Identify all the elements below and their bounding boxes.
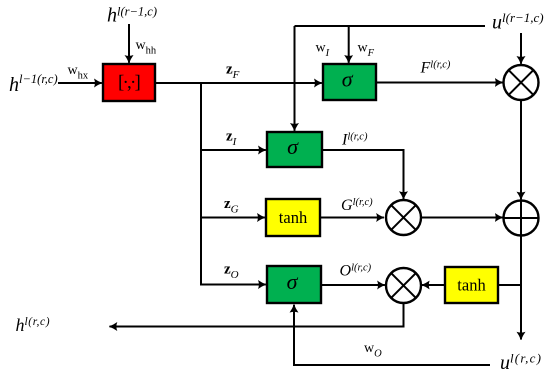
svg-text:wI: wI (316, 41, 330, 60)
svg-text:Fl(r,c): Fl(r,c) (420, 60, 451, 77)
svg-text:tanh: tanh (457, 276, 486, 295)
svg-text:Ol(r,c): Ol(r,c) (340, 263, 372, 280)
svg-text:wO: wO (364, 341, 382, 360)
svg-text:zO: zO (224, 262, 239, 282)
svg-text:zG: zG (224, 196, 239, 216)
svg-text:zI: zI (226, 129, 238, 149)
svg-text:Gl(r,c): Gl(r,c) (341, 197, 373, 214)
svg-text:Il(r,c): Il(r,c) (341, 132, 368, 149)
svg-text:σ: σ (287, 269, 299, 294)
svg-text:zF: zF (226, 62, 240, 82)
svg-text:whx: whx (68, 63, 89, 82)
svg-text:whh: whh (136, 38, 157, 57)
svg-text:hl(r,c): hl(r,c) (16, 315, 51, 335)
svg-text:ul(r−1,c): ul(r−1,c) (492, 10, 544, 34)
svg-text:ul(r,c): ul(r,c) (500, 351, 542, 375)
svg-text:[·,·]: [·,·] (118, 72, 140, 93)
svg-text:tanh: tanh (279, 208, 308, 227)
svg-text:hl−1(r,c): hl−1(r,c) (9, 72, 58, 96)
svg-text:σ: σ (342, 67, 354, 92)
svg-text:hl(r−1,c): hl(r−1,c) (107, 5, 157, 27)
svg-text:wF: wF (358, 41, 375, 60)
svg-text:σ: σ (287, 134, 299, 159)
